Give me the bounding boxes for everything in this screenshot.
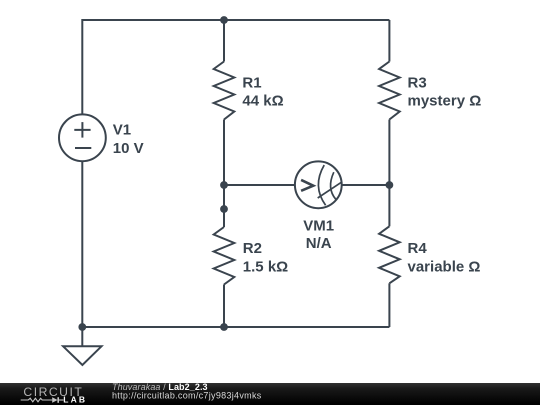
svg-text:VM1: VM1 [303, 217, 334, 234]
node junction mid middle [220, 181, 228, 189]
svg-text:1.5 kΩ: 1.5 kΩ [243, 258, 288, 275]
svg-text:10 V: 10 V [113, 140, 144, 157]
wire middle branch node to R2 [223, 209, 225, 227]
svg-text:R4: R4 [408, 240, 428, 257]
voltmeter VM1 [295, 161, 342, 208]
resistor R2 [214, 227, 235, 285]
ground [63, 346, 101, 365]
node junction bottom left [78, 323, 86, 331]
wire middle branch R2 to bottom [223, 285, 225, 328]
node junction R2 top [220, 205, 228, 213]
footer bar [0, 383, 540, 405]
wire ground stub [81, 327, 83, 346]
svg-text:mystery Ω: mystery Ω [408, 92, 482, 109]
svg-text:R2: R2 [243, 240, 262, 257]
svg-text:variable Ω: variable Ω [408, 258, 481, 275]
wire top rail [82, 19, 389, 21]
wire right branch top lead [388, 20, 390, 62]
svg-text:R3: R3 [408, 74, 427, 91]
resistor R1 [214, 62, 235, 120]
resistor R3 [379, 62, 400, 120]
svg-text:R1: R1 [242, 74, 261, 91]
svg-text:http://circuitlab.com/c7jy983j: http://circuitlab.com/c7jy983j4vmks [112, 390, 262, 400]
svg-text:LAB: LAB [63, 395, 87, 405]
resistor R4 [379, 226, 400, 283]
svg-text:44 kΩ: 44 kΩ [242, 92, 283, 109]
svg-text:V1: V1 [113, 122, 131, 139]
wire voltmeter left lead [224, 184, 295, 186]
wire middle branch node to node [223, 185, 225, 209]
node junction mid right [386, 181, 394, 189]
wire voltmeter right lead [342, 184, 390, 186]
wire middle branch top lead [223, 20, 225, 62]
node junction bottom middle [220, 323, 228, 331]
wire right branch R4 to bottom [388, 283, 390, 327]
wire right branch R3 to node [388, 120, 390, 186]
svg-text:N/A: N/A [306, 235, 332, 252]
logo CIRCUIT LAB [21, 385, 88, 405]
wire right branch node to R4 [388, 185, 390, 226]
voltage source V1 [59, 114, 106, 161]
wire left branch upper [81, 19, 83, 114]
wire bottom rail [82, 326, 389, 328]
wire left branch lower [81, 161, 83, 328]
node junction top [220, 16, 228, 24]
wire middle branch R1 to node [223, 120, 225, 186]
